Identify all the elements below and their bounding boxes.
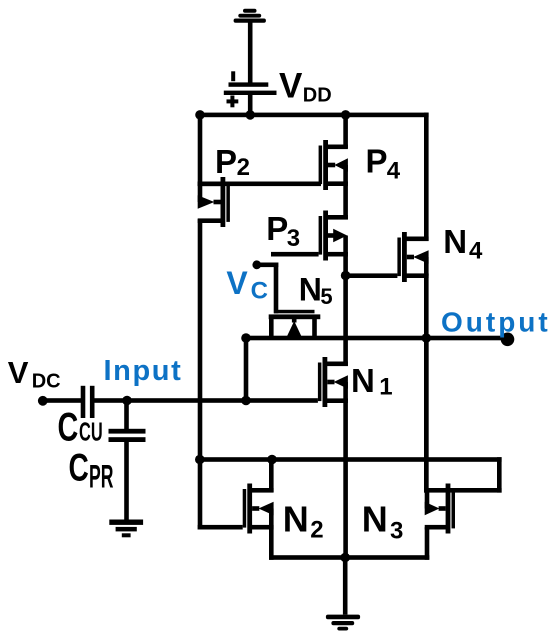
wire VDD rail	[198, 113, 429, 118]
battery V1 minus tick	[231, 71, 235, 81]
wire N2 drain up	[269, 460, 274, 493]
svg-text:2: 2	[237, 154, 250, 181]
wire N4 source to output and N3 drain	[424, 274, 429, 493]
svg-text:C: C	[58, 405, 79, 450]
svg-text:4: 4	[387, 158, 401, 185]
wire output line	[244, 336, 508, 341]
svg-text:PR: PR	[89, 460, 114, 495]
node VDC terminal	[38, 396, 48, 406]
wire N1 source down to bottom rail	[343, 399, 348, 560]
svg-text:5: 5	[320, 284, 332, 309]
wire P2 gate to P4 gate	[198, 182, 321, 187]
svg-text:DD: DD	[303, 85, 332, 107]
wire VC to N5 gate	[255, 263, 279, 314]
wire CPR to ground	[124, 442, 129, 521]
svg-text:3: 3	[390, 517, 403, 544]
wire bottom rail	[269, 555, 429, 560]
ground (bottom)	[326, 615, 360, 631]
wire N2 gate line	[198, 525, 243, 530]
wire battery to VDD rail	[248, 95, 253, 118]
svg-text:N: N	[362, 499, 388, 540]
ground (input)	[109, 520, 143, 538]
node VDD rail left	[195, 110, 205, 120]
label VDC	[8, 355, 61, 392]
svg-text:N: N	[443, 223, 467, 260]
wire output corner down to input node	[244, 338, 249, 401]
wire ground stem	[343, 558, 348, 615]
label Input	[104, 355, 183, 387]
svg-text:2: 2	[310, 516, 323, 543]
node rail left (left rail)	[195, 455, 205, 465]
node output terminal	[501, 333, 515, 347]
wire rail corner to N4 drain	[424, 113, 429, 241]
label P4	[366, 143, 401, 185]
node P3-N4 gate junction	[341, 271, 351, 281]
capacitor CCU	[81, 386, 95, 418]
node VDD rail battery	[245, 110, 255, 120]
capacitor CPR	[109, 429, 146, 442]
svg-text:P: P	[366, 143, 388, 180]
transistor N3	[425, 484, 455, 534]
wire N2 source down	[269, 527, 274, 560]
wire N3 source down	[425, 527, 430, 560]
power symbol VDD-earth (top)	[234, 9, 266, 23]
transistor P2	[198, 177, 230, 227]
transistor P3	[319, 211, 348, 261]
label CPR	[69, 446, 114, 495]
label N1	[351, 362, 393, 401]
transistor N1	[318, 357, 348, 407]
node input-N1 gate junction	[241, 396, 251, 406]
wire CPR branch	[124, 401, 129, 430]
wire P3 source down	[343, 252, 348, 366]
wire N4 gate line	[346, 273, 398, 278]
wire left rail lower (P2 drain down)	[198, 219, 203, 529]
battery V1 plus sign	[227, 96, 239, 108]
label Output	[441, 307, 550, 338]
svg-text:Output: Output	[441, 307, 550, 338]
label N3	[362, 499, 404, 545]
wire VDD symbol to battery	[248, 22, 253, 85]
svg-text:N: N	[283, 499, 309, 540]
node bottom rail center	[340, 553, 350, 563]
label CCU	[58, 405, 103, 450]
node input CPR junction	[122, 396, 132, 406]
node VC terminal	[252, 260, 261, 269]
svg-text:V: V	[226, 265, 248, 301]
wire VDC to CCU	[43, 398, 81, 403]
wire rail corner down to N3 gate	[497, 457, 502, 492]
svg-text:DC: DC	[32, 370, 61, 392]
svg-text:P: P	[266, 210, 288, 247]
battery V1 plates	[224, 82, 277, 95]
svg-text:CU: CU	[79, 417, 103, 447]
wire P4 source down	[343, 182, 348, 220]
label VC	[226, 265, 268, 304]
svg-text:4: 4	[469, 238, 483, 265]
svg-text:V: V	[279, 67, 303, 106]
svg-text:N: N	[299, 272, 322, 308]
wire N3 gate line	[448, 488, 502, 493]
svg-text:P: P	[215, 143, 237, 180]
svg-text:C: C	[251, 277, 268, 304]
label N5	[299, 272, 333, 309]
wire N2-N3 drain rail	[198, 457, 502, 462]
svg-text:V: V	[8, 355, 29, 390]
svg-text:1: 1	[379, 374, 392, 401]
label VDD	[279, 67, 332, 107]
wire P4 drain to rail	[343, 115, 348, 148]
wire input line	[95, 398, 318, 403]
wire N3 drain up to output	[424, 338, 429, 493]
node VDD rail P4 drain	[341, 110, 351, 120]
transistor N2	[243, 484, 274, 534]
node output corner	[241, 333, 251, 343]
node N4 source at output	[422, 333, 432, 343]
svg-text:Input: Input	[104, 355, 183, 387]
svg-text:C: C	[69, 446, 89, 490]
label N4	[443, 223, 483, 265]
wire left rail upper (VDD to P2 source)	[198, 113, 203, 186]
transistor N4	[397, 232, 428, 282]
transistor P4	[319, 140, 348, 190]
node rail N2 drain	[267, 455, 277, 465]
label N2	[283, 499, 324, 544]
label P3	[266, 210, 300, 252]
svg-text:3: 3	[287, 225, 300, 252]
wire P3 gate line	[271, 252, 319, 257]
label P2	[215, 143, 250, 181]
svg-text:N: N	[351, 362, 375, 399]
transistor N5 (rotated)	[269, 310, 321, 339]
